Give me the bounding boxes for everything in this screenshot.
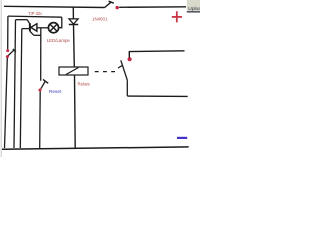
reset switch actuator tick [43, 79, 48, 83]
wire: loop A top edge [8, 16, 62, 17]
transistor Q1 collector lead horizontal [34, 34, 41, 36]
wire: loop B left segment [14, 20, 16, 148]
lamp X stroke 1 [50, 24, 57, 31]
reset switch contact dot [39, 89, 42, 92]
svg-text:LED/Lampe: LED/Lampe [47, 38, 71, 43]
wire: loop A left lower segment [5, 58, 8, 148]
lamp LED/Lampe circle [48, 23, 58, 33]
switch S2 upper contact dot [6, 49, 9, 52]
transistor Q1 emitter lead [27, 20, 30, 24]
wire: loop B top edge [16, 19, 28, 21]
transistor Q1 collector lead diagonal [30, 31, 34, 35]
svg-text:Uploa: Uploa [188, 6, 200, 12]
wire: junction vertical (collector node) down to reset switch [40, 28, 42, 81]
wire: triangle to lamp [37, 27, 48, 29]
wire: contact lower horizontal [127, 95, 187, 97]
svg-text:Reset: Reset [49, 89, 62, 95]
svg-text:Relais: Relais [78, 82, 91, 87]
wire: loop A right drop to lamp [59, 17, 62, 28]
drawing area left border [0, 0, 2, 157]
switch S1 contact dot [116, 6, 119, 9]
red cross cursor [172, 11, 182, 22]
relay contact fixed dot [128, 57, 132, 61]
lamp X stroke 2 [50, 24, 57, 31]
relay K1 coil diagonal [66, 68, 79, 75]
wire: diode to relay coil [73, 25, 76, 67]
wire: loop A left upper segment [7, 16, 9, 49]
switch S2 actuator tick [13, 49, 16, 52]
bottom return rail [2, 147, 189, 149]
transistor Q1 base bar [29, 23, 31, 31]
transistor Q1 arrow triangle [31, 24, 37, 32]
svg-text:1N4001: 1N4001 [92, 17, 108, 22]
relay K1 coil box [59, 67, 88, 75]
wire: top supply rail left segment [4, 6, 105, 7]
relay contact tick [118, 65, 123, 68]
wire: contact lower vertical [126, 81, 128, 97]
wire: loop C left segment [20, 29, 22, 148]
wire: contact upper horizontal [129, 50, 185, 53]
wire: contact dot stub [128, 52, 130, 58]
reset switch blade [41, 81, 46, 89]
blue mark [177, 137, 187, 139]
wire: relay coil to bottom rail [74, 75, 77, 148]
upload button [187, 0, 202, 13]
dashed mechanical link relay to contact [95, 71, 117, 73]
switch S1 blade (in top rail) [105, 2, 112, 8]
switch S2 blade [8, 50, 14, 56]
diode D1 cathode bar [69, 24, 78, 26]
switch S1 actuator tick [109, 1, 114, 3]
wire: diode branch from top rail [72, 7, 74, 19]
relay contact blade [121, 60, 128, 80]
wire: loop C top edge [22, 28, 30, 30]
switch S2 lower contact dot [6, 55, 9, 58]
diode D1 triangle [69, 19, 78, 24]
wire: top supply rail right segment [119, 6, 186, 9]
wire: reset lower wire to bottom rail [39, 92, 42, 149]
svg-text:TIP 32c: TIP 32c [28, 11, 42, 16]
